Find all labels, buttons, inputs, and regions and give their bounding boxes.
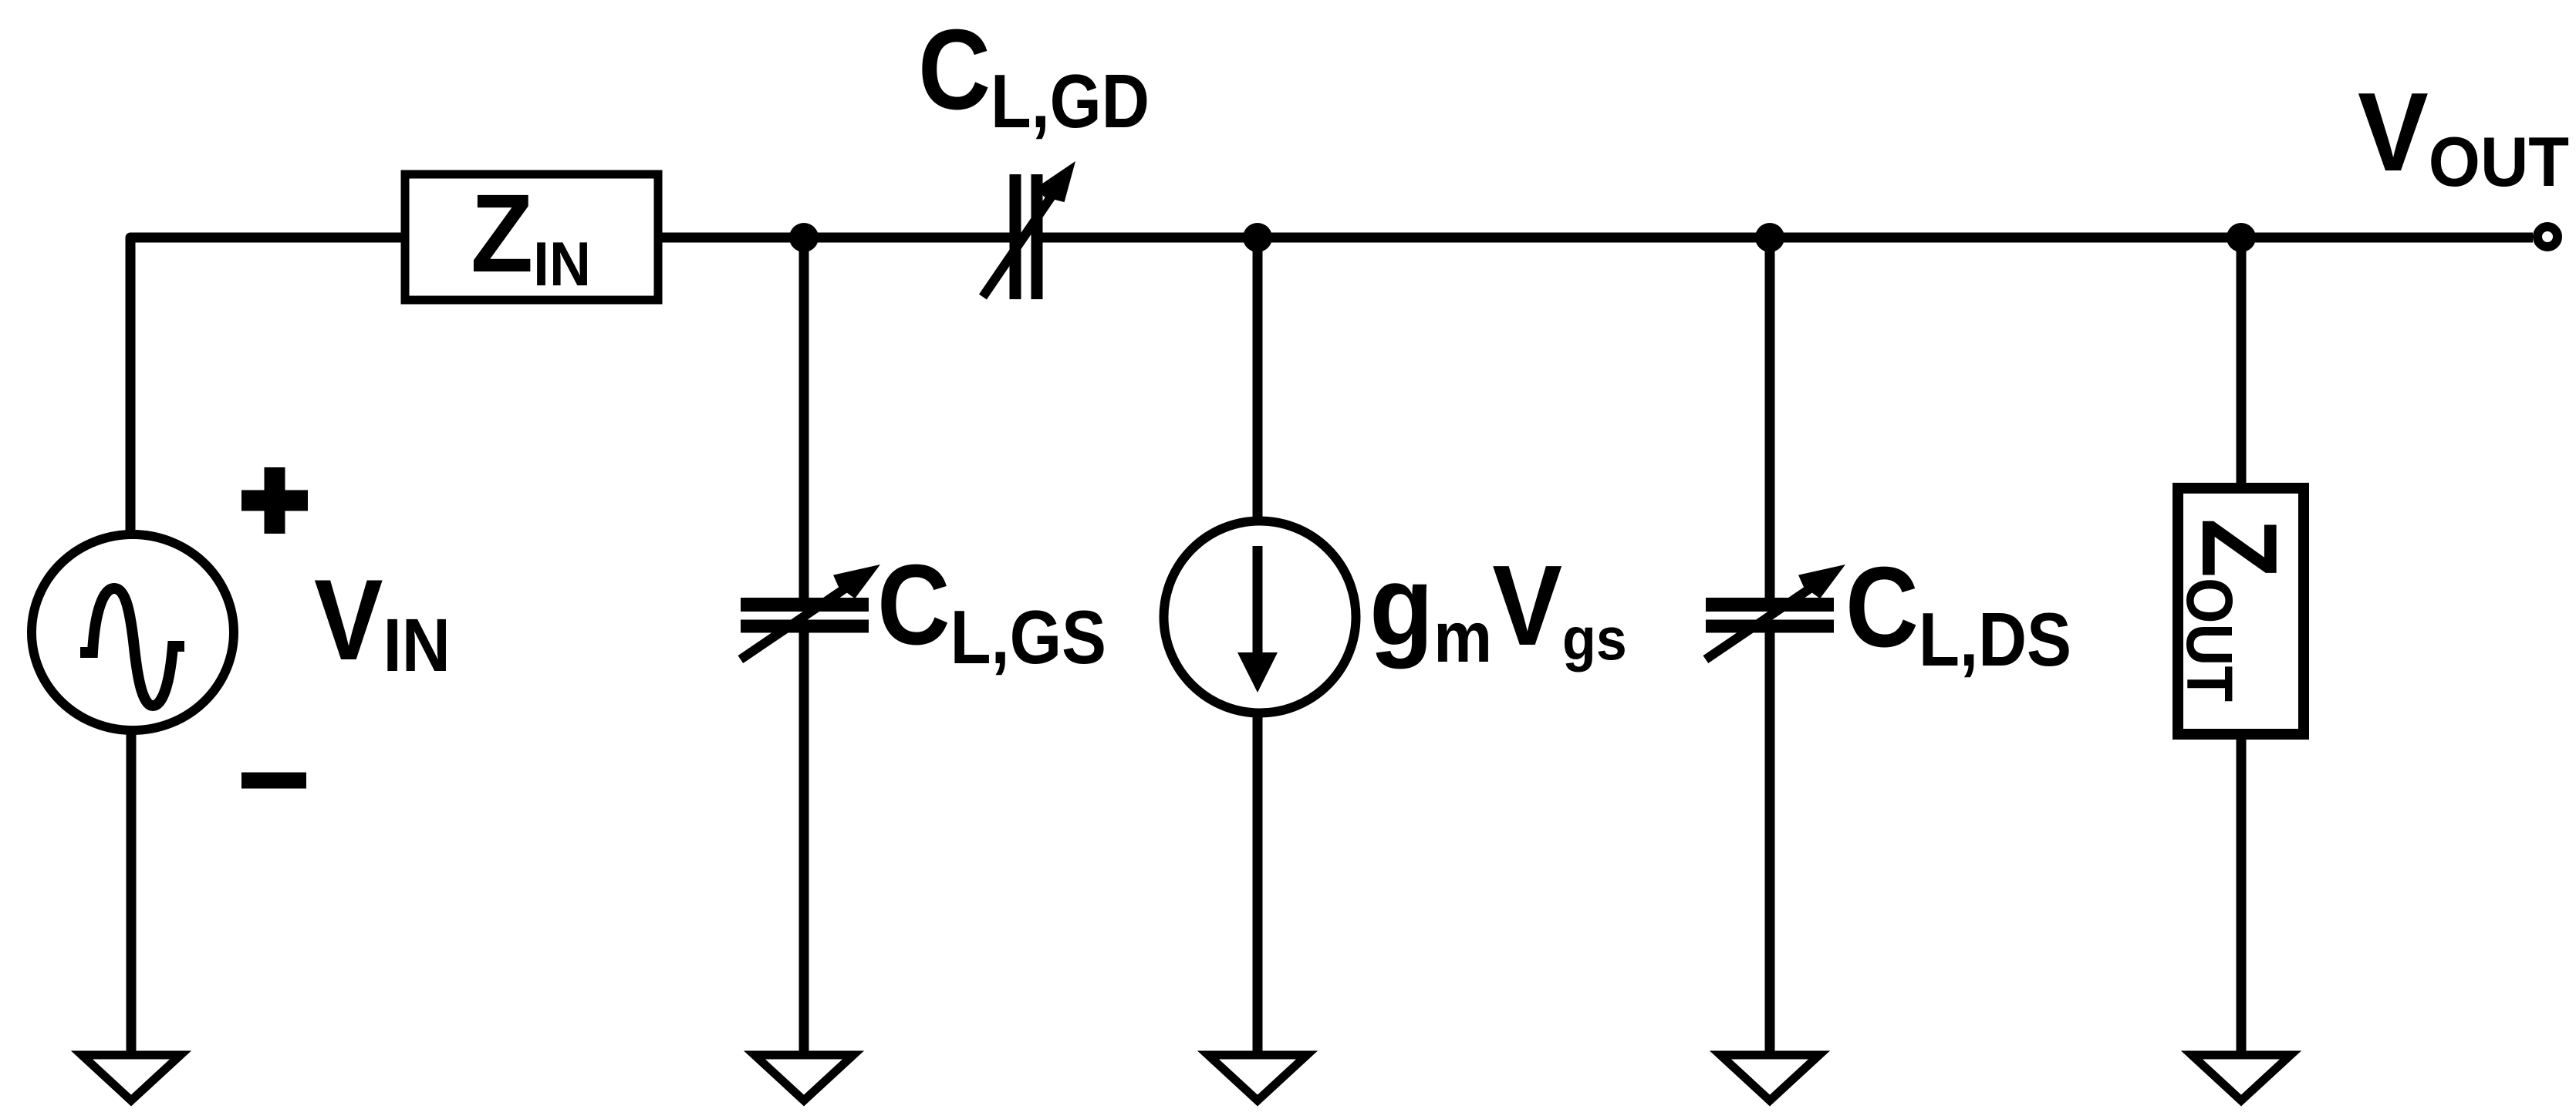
C_L,GS variable arrow [731, 550, 888, 671]
wire: drain node to output terminal [1770, 233, 2533, 243]
ground (V_IN) [82, 1055, 181, 1100]
label V_OUT [2358, 69, 2569, 201]
impedance Z_IN (series box) [405, 174, 658, 300]
label C_L,DS [1845, 543, 2071, 682]
ground (Z_OUT) [2192, 1055, 2291, 1100]
wire: C_L,DS bottom plate to ground [1765, 626, 1775, 1053]
node V_OUT: output terminal [2537, 227, 2557, 247]
wire: source bottom to ground [127, 730, 137, 1053]
plus sign [241, 467, 308, 534]
wire: input rail from source top-left corner to Z_IN [130, 238, 401, 532]
wire: rail down to Z_OUT [2237, 238, 2247, 486]
sine squiggle inside source [80, 588, 184, 706]
label V_IN [314, 557, 451, 687]
node: gate node junction [789, 223, 819, 252]
node: Z_OUT junction [2227, 223, 2256, 252]
wire: Z_IN to C_L,GD [662, 233, 1010, 243]
label g_m V_gs [1369, 542, 1627, 677]
minus sign [241, 773, 306, 789]
wire: rail down to C_L,DS top plate [1765, 238, 1775, 606]
wire: C_L,GS bottom plate to ground [799, 626, 809, 1053]
label C_L,GS [877, 541, 1106, 680]
capacitor C_L,GD plates (variable, series in rail) [1010, 174, 1021, 299]
ground (current source) [1208, 1055, 1307, 1100]
capacitor C_L,DS plates (variable, shunt to ground) [1706, 598, 1834, 612]
wire: C_L,GD to drain node [1042, 233, 1770, 243]
wire: rail down to current source [1253, 238, 1263, 524]
wire: gate node down to C_L,GS top plate [799, 238, 809, 606]
label C_L,GD [918, 5, 1150, 143]
capacitor C_L,GS plates (variable, shunt to ground) [741, 598, 869, 612]
impedance Z_OUT (shunt box) [2178, 488, 2304, 734]
ground (C_L,GS) [755, 1055, 853, 1100]
current source arrow (downward) [1253, 546, 1263, 657]
node: C_L,DS junction [1755, 223, 1784, 252]
C_L,DS variable arrow [1696, 550, 1853, 671]
label Z_OUT (rotated) [2173, 518, 2298, 702]
wire: Z_OUT to ground [2237, 734, 2247, 1053]
current source g_m V_gs (circle) [1164, 521, 1356, 713]
voltage source V_IN (sine source) [32, 534, 234, 730]
label Z_IN [471, 172, 591, 299]
C_L,GD variable arrow [968, 151, 1087, 305]
ground (C_L,DS) [1720, 1055, 1819, 1100]
node: current source junction [1243, 223, 1272, 252]
wire: current source to ground [1253, 713, 1263, 1053]
